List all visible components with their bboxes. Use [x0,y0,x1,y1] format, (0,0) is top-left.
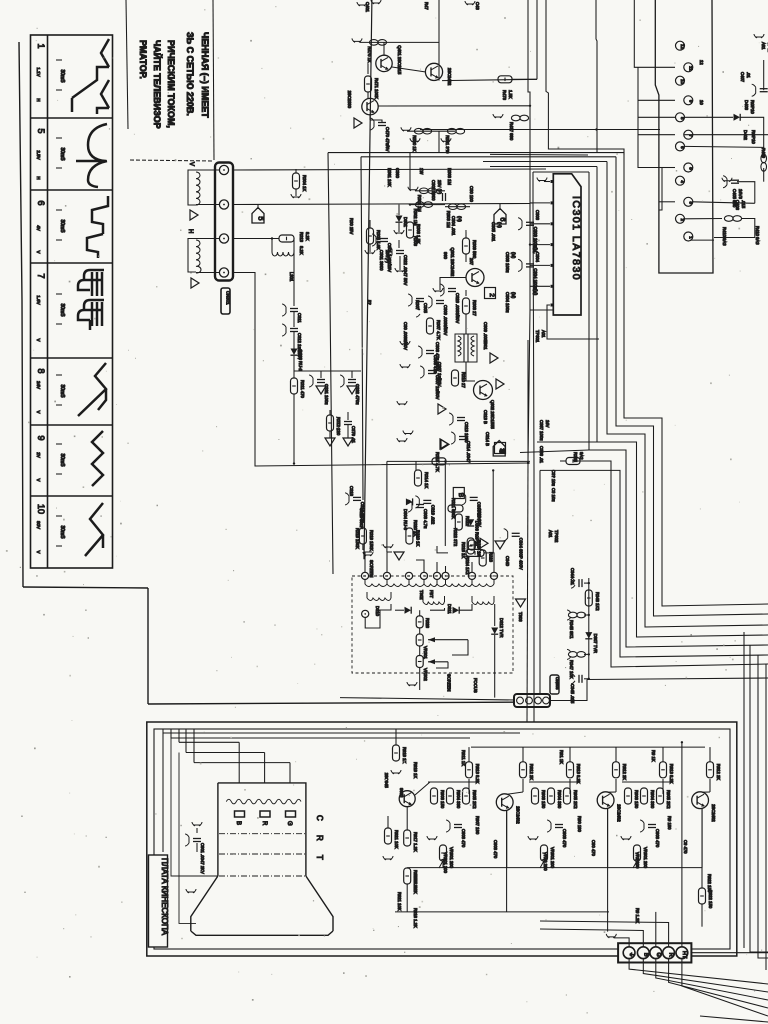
svg-text:R530 1K: R530 1K [412,135,417,152]
divider pot 2 (focus) [419,646,421,656]
wire mid block border B left [361,157,363,500]
capacitor C333 [470,496,478,498]
capacitor C306 [426,350,434,352]
svg-text:C318: C318 [349,486,354,497]
pot VR stage 2 [541,845,548,861]
connector CN301 pin 4 [219,268,228,277]
wire bus E horizontal [533,171,589,173]
flyback winding lower b [423,596,445,605]
resistor R471 [367,63,369,74]
wire emitter stage 2 [607,808,609,867]
resistor collector A stage 3 [662,747,664,762]
wire right bus a [750,645,768,952]
transistor Q301 [466,269,484,287]
ground label left funnel [186,889,196,893]
CRT electrode R [260,811,270,817]
svg-text:R904 330: R904 330 [456,790,461,809]
wire pin3 to R313 [233,238,279,240]
svg-text:Q302 2SD1555: Q302 2SD1555 [490,400,495,430]
svg-text:8.2K: 8.2K [299,246,304,255]
svg-text:(M): (M) [511,252,516,259]
resistor R307 [427,318,434,334]
svg-text:C30 100: C30 100 [469,186,474,203]
svg-text:B: B [457,493,464,497]
wire bus A vertical [624,153,768,606]
wire right bus b [758,655,768,958]
svg-text:H: H [36,176,41,179]
svg-text:2SC2330: 2SC2330 [347,91,352,109]
capacitor C901 [193,838,201,840]
capacitor C301 [380,238,388,240]
wire right bus extra [743,632,745,948]
svg-text:R9 1.2K: R9 1.2K [635,908,640,923]
wire T301 to Q302 [466,362,475,381]
CRT funnel [191,876,333,935]
svg-text:ЧЕННАЯ (–) ИМЕЕТ: ЧЕННАЯ (–) ИМЕЕТ [200,32,210,118]
resistor R473 [498,76,512,83]
capacitor C303 [529,203,531,220]
label box PLATA KINESKOPA [149,855,168,947]
capacitor peaking stage 1 [454,824,462,826]
svg-text:ЗЬ С СЕТЬЮ 220В.: ЗЬ С СЕТЬЮ 220В. [185,32,195,116]
wire socket HT up [681,742,683,946]
waveform scale ticks [56,209,62,211]
wire cluster bottom rails [398,240,400,248]
wire to T301 [465,314,467,334]
svg-text:R313: R313 [299,232,304,243]
svg-text:⏚: ⏚ [628,952,635,958]
svg-text:C309 .0039: C309 .0039 [483,322,488,344]
svg-text:10: 10 [699,100,704,105]
resistor R437 [511,115,520,121]
svg-text:R319 150K: R319 150K [369,530,374,551]
svg-text:1.1V: 1.1V [36,67,41,76]
connector pin 12 [676,41,685,50]
svg-text:C401: C401 [365,2,370,13]
svg-text:VR901 200: VR901 200 [550,847,555,869]
svg-text:C901 .0047 2KV: C901 .0047 2KV [200,843,205,874]
svg-text:R9 1K: R9 1K [651,750,656,762]
square flag 2 [485,288,496,299]
svg-text:R385: R385 [573,452,578,463]
connector CRT socket body [618,943,691,962]
connector pin 2 [676,214,685,223]
wire text block left boundary [126,0,128,129]
divider pot 1 (screen) [416,634,423,646]
wire aquadag ground [179,753,196,924]
capacitor C345 [584,678,589,680]
capacitor C309 [436,300,444,302]
wire into board left 1 [163,729,520,733]
resistor emitter stage 2 [564,788,571,804]
capacitor C312 [290,328,298,330]
flag 5 [252,208,264,224]
svg-text:R919 1K: R919 1K [402,747,407,764]
capacitor C313 [457,417,465,419]
junction HT [681,741,683,743]
waveform 9 (zigzag) [92,431,103,486]
wire stage1 down [506,811,508,912]
diode D312 [494,604,496,626]
flyback winding 5 [472,580,494,587]
svg-text:30mS: 30mS [59,303,65,317]
svg-text:C314 B: C314 B [485,432,490,446]
flyback pin 5 [433,572,440,579]
svg-text:2SC2482: 2SC2482 [711,804,716,822]
svg-text:R319 150K: R319 150K [355,528,360,549]
connector CN303 pin 1 [517,697,524,704]
resistor R530 [407,130,455,132]
svg-text:C304 100u: C304 100u [505,292,510,313]
svg-text:C305: C305 [423,303,428,314]
svg-text:Q401 2SC1815: Q401 2SC1815 [397,45,402,75]
resistor R409 [761,154,767,163]
svg-text:R315 4.7K: R315 4.7K [435,452,440,472]
wire IC pin7 [530,305,550,310]
ground below yoke V [190,210,198,220]
wire pin3 right [693,202,755,204]
wire IC pin1 [544,181,550,183]
wire socket fan 4 [669,959,768,1008]
wire rail y452 [520,450,589,453]
svg-text:R303 1M: R303 1M [446,211,451,229]
svg-text:G: G [655,953,661,957]
svg-text:5: 5 [257,216,266,220]
wire base rail stage 3 [622,781,671,783]
connector socket pin ⏚ [623,947,635,959]
waveform scale ticks [56,374,62,376]
svg-text:A01: A01 [548,530,553,538]
connector CN303 pin 4 [543,697,550,704]
wire vertical from page top x439 [438,0,440,81]
flyback pin 6 [442,572,449,579]
svg-text:R307: R307 [415,300,420,311]
left resistors R919/R920 [393,745,400,761]
resistor R310 [452,370,459,386]
svg-text:R30 25V: R30 25V [349,218,354,235]
wire rail y154 [490,153,588,156]
ground below yoke H [191,278,199,288]
svg-text:FOCUS: FOCUS [473,678,478,693]
wire IC pin5 [530,264,550,266]
svg-text:R410 9A3: R410 9A3 [755,226,760,245]
wire socket fan 1 [629,959,768,984]
svg-text:C345 .015: C345 .015 [570,684,575,704]
svg-text:R306: R306 [413,236,418,247]
IC301 pin 5 [551,264,554,267]
wire page left border [19,42,23,587]
svg-text:C3 10u: C3 10u [551,488,556,502]
wire mid block border A top [328,152,624,154]
resistor emitter stage 3 [657,788,664,804]
ground stage 1 [427,836,437,840]
resistor R304 [295,169,297,173]
svg-text:C303 100u: C303 100u [505,252,510,273]
wire socket pin1 up [614,938,629,946]
pot VR stage 3 [634,845,641,861]
svg-text:VR301: VR301 [423,646,428,659]
svg-text:R303 1M: R303 1M [447,168,452,186]
svg-text:R320 1K: R320 1K [413,520,418,537]
capacitor peaking stage 2 [555,824,563,826]
wire base rail stage 2 [529,781,578,783]
wire upper block bottom border [148,702,545,704]
wire pin5 stub [659,167,675,169]
svg-text:R361 10K: R361 10K [387,168,392,187]
wire R vertical [264,753,266,783]
wire collector join stage 3 [703,791,710,793]
connector pin 6 [676,142,685,151]
svg-text:10: 10 [680,79,685,85]
wire bus B vertical [616,157,768,616]
svg-text:C903 470: C903 470 [562,829,567,848]
wire pin3 stub [659,201,675,203]
IC301 pin 1 [551,180,554,183]
svg-text:C313 B: C313 B [483,410,488,424]
wire rail y679 [587,678,768,680]
wire lower winding joins [365,604,391,628]
wire text block right boundary [213,0,214,160]
capacitor C470 [369,115,371,120]
svg-text:D310: D310 [375,606,380,617]
svg-text:(M): (M) [511,292,516,299]
wire pot bottom stage 1 [442,861,444,868]
waveform scale ticks [56,293,62,295]
IC301 pin 2 [551,201,554,204]
small res above pin [468,540,475,550]
wire B vertical [238,742,240,783]
wire into board left 2 [171,729,470,738]
resistor R318 [466,549,484,556]
flyback winding 3 [409,580,446,587]
wire bottom edge line [700,1016,768,1022]
svg-text:12: 12 [699,60,704,65]
capacitor C302 [442,193,444,201]
capacitor C311 [290,308,298,310]
svg-text:6: 6 [499,217,508,221]
wire socket fan 5 [682,959,768,1016]
resistor emitter stage 1 [463,788,470,804]
connector CN303 body [514,694,550,707]
svg-text:11: 11 [688,66,693,71]
connector CN303 pin 2 [526,697,533,704]
svg-text:A81: A81 [761,42,766,50]
svg-text:R903 150: R903 150 [440,790,445,809]
junction x445 [444,460,446,462]
ground T301 [490,353,498,363]
svg-text:C308 4.7u: C308 4.7u [423,509,428,529]
svg-text:30mS: 30mS [59,453,65,467]
svg-text:VR901 200: VR901 200 [449,847,454,869]
wire bus F component line [574,461,768,667]
capacitor C331 [320,371,322,378]
wire pin7 right full [685,134,768,136]
resistor base stage 3 [625,788,632,804]
capacitor peaking stage 3 [648,824,656,826]
svg-text:6: 6 [36,200,46,205]
svg-text:C9 470: C9 470 [683,840,688,854]
wire pin6 right [685,146,764,155]
svg-text:C R T: C R T [315,815,324,866]
waveform 8 (V sawtooth) [78,363,106,416]
flag 6 [494,209,506,225]
ground marks row [410,138,420,142]
wire emitter stage 3 [701,808,703,867]
svg-text:VR901 200: VR901 200 [643,847,648,869]
wire bus x528 lower [528,130,530,464]
svg-text:R410 9A3: R410 9A3 [722,227,727,246]
svg-text:D304 RU-3: D304 RU-3 [403,509,408,531]
connector CN301 pin 3 [219,234,228,243]
svg-text:R323: R323 [489,552,494,563]
svg-text:R903 150: R903 150 [541,790,546,809]
resistor collector B stage 3 [709,747,711,762]
waveform scale ticks [56,137,62,139]
wire mid block border B top [361,156,616,158]
capacitor C307 [428,370,436,372]
wire G horizontal [194,762,290,764]
svg-text:25V(F): 25V(F) [385,250,390,263]
svg-text:R310 27: R310 27 [461,372,466,389]
wire B horizontal [179,741,239,743]
resistor bias stage 3 [641,788,648,804]
wire strip stub y100 [638,99,675,101]
wire socket B up [540,929,643,946]
connector socket pin G [650,947,662,959]
wire pot bottom stage 2 [543,861,545,868]
svg-text:B: B [642,953,648,957]
wire L301 down chain [293,250,295,306]
flyback pin 2 [383,572,390,579]
svg-text:C387 100u: C387 100u [539,420,544,441]
svg-text:R531 330: R531 330 [445,135,450,154]
resistor collector B stage 1 [522,747,524,762]
flyback pin lower left [362,610,369,617]
svg-text:C406: C406 [735,200,740,211]
resistor R320 [406,528,413,544]
wire socket fan 3 [656,959,768,1000]
diode D310 [395,609,404,611]
connector socket pin HT [676,947,688,959]
resistor R308 [465,290,467,296]
svg-text:R347 10K: R347 10K [569,660,574,679]
svg-text:C302 3900: C302 3900 [431,180,436,201]
wire socket fan 2 [643,959,768,992]
svg-text:R911 1K: R911 1K [461,750,466,766]
resistor bias stage 1 [447,788,454,804]
svg-text:R309 560: R309 560 [472,240,477,259]
op-amp IC301 LA7830 body [553,174,581,315]
wire strip stub y117 [638,116,675,118]
junction pin3 [271,237,273,239]
wire IC pin stub lower [530,172,533,203]
wire strip bottom stub [690,239,714,241]
resistor R301 [415,190,445,192]
wire R313 to L301 [293,239,295,244]
connector CN301 pin 1 [219,165,228,174]
wire R385 left stub [560,460,566,462]
svg-text:C3? 10u: C3? 10u [551,470,556,487]
IC301 pin 6 [551,285,554,288]
svg-text:R905 2K2: R905 2K2 [472,790,477,809]
diode D311 [430,608,445,610]
svg-text:IC301 LA7830: IC301 LA7830 [570,196,582,281]
svg-text:D312 TVR: D312 TVR [499,618,504,637]
wire rail from border to parts [409,153,411,190]
wire bus G line [540,470,768,657]
resistor R303 [445,206,470,208]
resistor R312 [329,410,331,415]
svg-text:R328: R328 [425,618,430,629]
svg-text:C344 .01: C344 .01 [570,568,575,586]
connector CN301 body [215,163,233,281]
wire chain x588.8 [588,578,590,680]
svg-text:C340: C340 [505,556,510,567]
ground triangle T303 area [516,599,526,607]
misc tick row [400,341,410,345]
connector pin 11 [684,63,693,72]
resistor R311 [291,378,298,394]
waveform 5 (parabola pair) [76,124,107,187]
wire R horizontal [186,752,265,754]
wire Q403 collector rail y106 [378,105,530,107]
svg-text:V: V [36,478,41,481]
svg-text:R907 180: R907 180 [475,816,480,835]
wire bus vertical x528 [528,0,530,130]
transistor Q402 2SC2482 [425,63,442,80]
svg-text:R437 680: R437 680 [509,122,514,141]
transistor output stage 3 [692,792,709,809]
tick marks top edge [357,2,367,6]
wire pin2 up [387,552,392,572]
svg-text:Q301 2SC2482: Q301 2SC2482 [450,248,455,278]
pot VR stage 1 [440,845,447,861]
svg-text:9603: 9603 [399,788,404,798]
svg-text:C903 470: C903 470 [461,829,466,848]
svg-text:R912 2K: R912 2K [622,764,627,781]
ground+cap near top [403,431,413,435]
svg-text:R322 372: R322 372 [453,528,458,547]
resistor R531 [447,128,456,134]
flyback pin 3 [405,572,412,579]
wire emitter rail y867.6 [407,867,702,869]
wire v x439 lower [438,131,440,152]
svg-text:(H): (H) [497,222,502,228]
svg-text:12: 12 [680,44,685,50]
svg-text:30mS: 30mS [59,219,65,233]
wire vertical x634 [634,0,675,67]
wire border vertical to CRT board [147,588,149,704]
connector strip CN401 body [655,0,713,273]
svg-text:РМАТОР.: РМАТОР. [138,40,148,79]
connector pin 7 [684,130,693,139]
svg-text:R305 5.6K: R305 5.6K [376,230,381,250]
svg-text:D303 RU-2: D303 RU-2 [298,350,303,372]
label CN303 [550,675,559,694]
svg-text:C301 3900: C301 3900 [379,250,384,271]
resistor R347 [584,653,589,655]
svg-text:V: V [36,550,41,553]
svg-text:V: V [36,410,41,413]
svg-text:R916 1.2K: R916 1.2K [413,908,418,928]
svg-text:R921 10K: R921 10K [397,892,402,911]
junction chain to loop [293,462,295,464]
flyback pin 4 [420,572,427,579]
svg-text:16V: 16V [545,420,550,428]
capacitor C305 row [416,298,424,300]
svg-text:24V: 24V [36,381,41,389]
connector pin 10 [676,76,685,85]
